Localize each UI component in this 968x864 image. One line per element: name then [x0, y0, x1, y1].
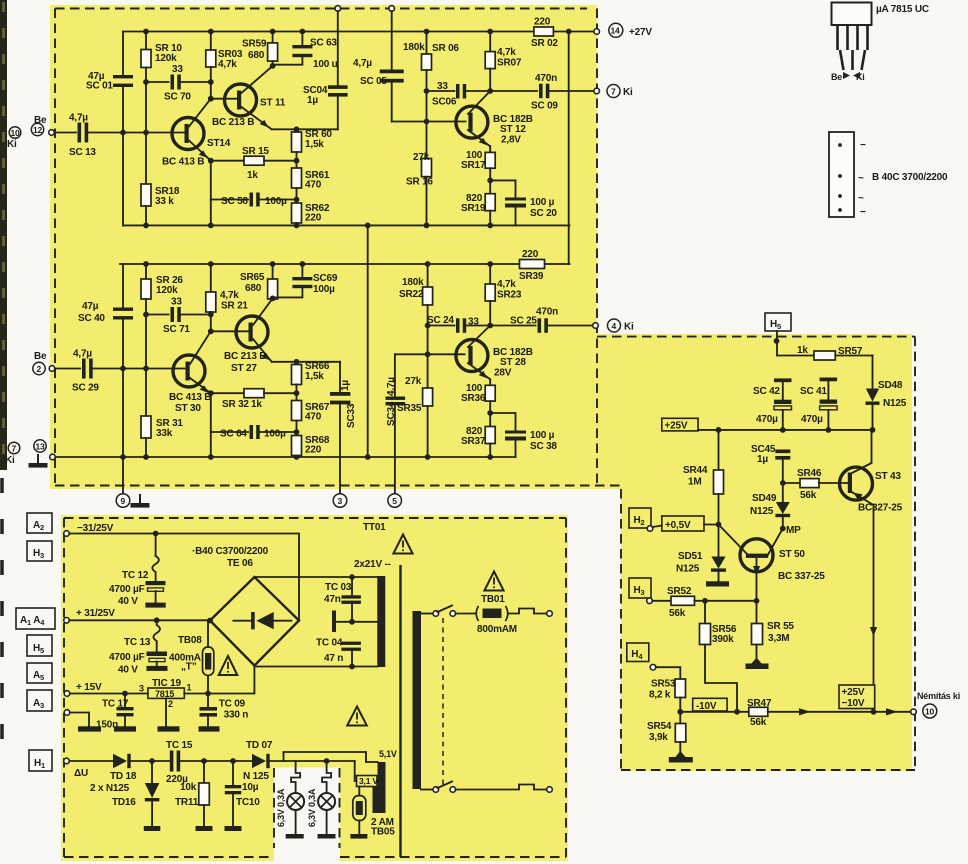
svg-text:SR52: SR52: [667, 586, 692, 597]
svg-text:SR07: SR07: [497, 58, 522, 69]
capacitor SC29: [82, 359, 86, 379]
resistor SR67: [292, 401, 302, 421]
svg-text:SR 21: SR 21: [221, 301, 248, 312]
svg-text:SR46: SR46: [797, 468, 822, 479]
dashed border lamp cutout: [274, 768, 340, 848]
terminal circle 5: [388, 494, 402, 508]
rectifier B40C block: [829, 132, 854, 217]
primary bottom switch: [421, 789, 433, 791]
svg-text:SC34: SC34: [386, 401, 397, 426]
svg-text:BC327-25: BC327-25: [858, 503, 903, 514]
fuse TB05: [358, 787, 360, 796]
svg-text:220: 220: [305, 213, 322, 224]
wire +25V line: [698, 429, 872, 431]
terminal H2: [647, 526, 653, 532]
svg-text:SR37: SR37: [461, 436, 486, 447]
svg-text:33k: 33k: [156, 428, 173, 439]
wire +27V top rail channel 1: [123, 31, 594, 33]
node SR59 bottom junction: [270, 63, 276, 69]
node bridge left vertex: [207, 618, 213, 624]
svg-text:47µ: 47µ: [82, 301, 99, 312]
diode TD16: [151, 761, 153, 783]
node base junction SR06 column: [424, 119, 430, 125]
ground symbol at 9: [131, 494, 150, 508]
switch link dashed: [442, 618, 444, 785]
resistor SR02: [534, 27, 554, 36]
terminal circle 7 ki left: [8, 442, 20, 454]
svg-text:SC 70: SC 70: [164, 92, 191, 103]
svg-text:TT01: TT01: [363, 522, 386, 533]
node MP: [780, 526, 786, 532]
node rail ch2 SR35: [425, 454, 431, 460]
svg-text:SR19: SR19: [461, 203, 486, 214]
wire H5 down: [776, 331, 778, 356]
svg-text:680: 680: [245, 283, 262, 294]
svg-text:TB05: TB05: [371, 827, 395, 838]
svg-text:TC 03: TC 03: [325, 582, 352, 593]
node SC06 left junction: [424, 88, 430, 94]
capacitor TC03: [351, 577, 353, 595]
capacitor TC09: [207, 694, 209, 708]
diode SD51: [718, 525, 720, 557]
terminal circle 3: [333, 494, 347, 508]
svg-text:SC06: SC06: [432, 97, 457, 108]
resistor SR65: [272, 264, 274, 279]
svg-text:−: −: [860, 140, 866, 151]
svg-text:ST14: ST14: [207, 138, 231, 149]
wire ground rail channel 2: [53, 456, 516, 458]
svg-text:Ki: Ki: [623, 87, 633, 98]
label box H5 left: [27, 635, 52, 656]
capacitor TC17: [124, 694, 126, 708]
svg-text:SR44: SR44: [683, 465, 708, 476]
svg-text:SC 41: SC 41: [800, 386, 827, 397]
svg-text:ST 30: ST 30: [175, 403, 201, 414]
svg-text:2,8V: 2,8V: [501, 135, 521, 146]
diode SD48: [872, 356, 874, 389]
svg-text:4,7µ: 4,7µ: [353, 58, 372, 69]
svg-text:+25V: +25V: [665, 421, 688, 432]
node SR52/emitter ST50: [754, 598, 760, 604]
svg-text:SC 71: SC 71: [163, 324, 190, 335]
svg-text:100 u: 100 u: [313, 59, 338, 70]
node TC12 top: [153, 531, 159, 537]
svg-text:7: 7: [12, 443, 17, 453]
node TC03 top: [349, 574, 355, 580]
svg-text:ST 43: ST 43: [875, 471, 901, 482]
svg-text:TC 13: TC 13: [124, 637, 151, 648]
terminal input ch2: [49, 366, 55, 372]
svg-text:4,7k: 4,7k: [220, 290, 239, 301]
svg-text:+ 31/25V: + 31/25V: [76, 608, 115, 619]
capacitor SC69: [301, 264, 303, 277]
svg-text:2: 2: [37, 364, 42, 374]
ground SR54: [675, 751, 686, 758]
fuse TB01: [476, 606, 508, 621]
yellow right region (muting circuit): [597, 334, 912, 771]
svg-text:SC 05: SC 05: [360, 76, 387, 87]
svg-text:„T”: „T”: [181, 662, 197, 673]
terminal input ch1: [49, 130, 55, 136]
capacitor TC12: [155, 534, 157, 557]
svg-text:220: 220: [522, 249, 539, 260]
svg-text:SR35: SR35: [397, 403, 422, 414]
svg-text:TR11: TR11: [175, 797, 199, 808]
svg-text:Be: Be: [831, 72, 842, 82]
svg-text:SD49: SD49: [752, 493, 777, 504]
svg-text:9: 9: [121, 496, 126, 506]
wire ST14 emitter down: [210, 161, 212, 226]
svg-text:4,7k: 4,7k: [218, 59, 237, 70]
svg-text:ST 11: ST 11: [260, 98, 286, 109]
svg-text:~: ~: [858, 193, 864, 204]
node SR65 bottom junction: [270, 296, 276, 302]
transistor ST11: [225, 84, 257, 116]
node SC70 right junction: [208, 79, 214, 85]
bridge rectifier TE06: [210, 577, 299, 666]
svg-text:100 µ: 100 µ: [530, 430, 555, 441]
transistor ST12: [456, 106, 488, 138]
resistor SR55: [756, 601, 758, 624]
svg-text:4700 µF: 4700 µF: [109, 652, 145, 663]
secondary winding 2x21V: [377, 576, 385, 667]
svg-text:1k: 1k: [797, 345, 808, 356]
svg-text:SR57: SR57: [838, 346, 863, 357]
terminal circle 4: [608, 319, 621, 332]
svg-text:+0,5V: +0,5V: [665, 520, 691, 531]
resistor SR32: [211, 392, 244, 394]
svg-text:+27V: +27V: [629, 27, 652, 38]
node SR52/SR56: [702, 598, 708, 604]
svg-text:SR22: SR22: [399, 289, 424, 300]
svg-text:4,7µ: 4,7µ: [73, 349, 92, 360]
transistor ST50: [740, 539, 773, 572]
wire ground rail channel 1: [123, 224, 570, 226]
svg-text:~: ~: [858, 173, 864, 184]
capacitor TC15: [170, 751, 174, 772]
svg-text:SC 42: SC 42: [753, 386, 780, 397]
node rail SR65: [270, 261, 276, 267]
svg-text:3,1 V: 3,1 V: [359, 776, 378, 786]
transistor ST30: [173, 355, 205, 387]
node SR36 bottom junction: [487, 410, 493, 416]
node rail SR22: [425, 261, 431, 267]
svg-text:33: 33: [437, 81, 448, 92]
svg-text:1k: 1k: [251, 399, 262, 410]
resistor SR44: [718, 430, 720, 470]
svg-text:SR 15: SR 15: [242, 146, 269, 157]
svg-text:3,9k: 3,9k: [649, 732, 668, 743]
svg-text:BC 413 B: BC 413 B: [169, 392, 211, 403]
resistor SR31: [141, 416, 151, 438]
resistor SR52: [652, 600, 671, 602]
node rail junction SC63 column: [300, 29, 306, 35]
svg-text:SC 40: SC 40: [78, 313, 105, 324]
node TC13 top: [154, 617, 160, 623]
node rail junction +27V feed: [566, 29, 572, 35]
svg-text:5,1V: 5,1V: [379, 749, 397, 759]
label box A3: [27, 690, 52, 711]
wire secondary top: [254, 576, 377, 578]
center tap bar: [332, 611, 336, 633]
svg-text:390k: 390k: [712, 634, 734, 645]
net label box +25V: [662, 418, 698, 431]
svg-text:−: −: [860, 207, 866, 218]
resistor SR22: [427, 264, 429, 287]
svg-text:13: 13: [36, 441, 46, 451]
node SC45/SR46/SD49: [780, 480, 786, 486]
terminal circle 10: [9, 127, 21, 139]
resistor SR37: [485, 427, 495, 444]
svg-text:56k: 56k: [800, 490, 817, 501]
svg-text:SC 58: SC 58: [221, 196, 248, 207]
terminal ground rail ch2: [50, 454, 56, 460]
resistor SR68: [292, 436, 302, 456]
svg-text:TB08: TB08: [178, 635, 202, 646]
svg-text:SR 32: SR 32: [222, 399, 249, 410]
svg-text:10k: 10k: [180, 782, 197, 793]
svg-text:56k: 56k: [750, 717, 767, 728]
net label box -10V: [693, 698, 727, 711]
svg-text:4,7µ: 4,7µ: [69, 113, 88, 124]
svg-text:7: 7: [611, 86, 616, 96]
svg-text:27k: 27k: [413, 152, 430, 163]
node rail SR26: [143, 261, 149, 267]
svg-text:14: 14: [611, 26, 621, 36]
terminal circle 14: [609, 23, 623, 37]
lamp 1: [291, 761, 300, 793]
wire lamp top jog: [284, 752, 378, 762]
resistor SR36: [489, 379, 491, 385]
svg-text:TB01: TB01: [481, 594, 505, 605]
svg-text:Ki: Ki: [856, 72, 865, 82]
wire -31/25V to bridge: [69, 534, 299, 621]
terminal on top border SC04: [335, 6, 341, 12]
dashed border PSU region: [64, 518, 566, 857]
svg-text:10: 10: [925, 706, 935, 716]
svg-text:40 V: 40 V: [118, 596, 138, 607]
node rail SR62: [294, 223, 300, 229]
wire input ch2: [55, 368, 80, 370]
svg-text:1µ: 1µ: [340, 380, 351, 391]
node TR11: [201, 758, 207, 764]
warning triangle mid: [347, 707, 367, 726]
terminal +27V: [594, 29, 600, 35]
svg-text:SC33: SC33: [346, 403, 357, 428]
svg-text:Ki: Ki: [624, 322, 634, 333]
resistor SR21: [210, 264, 212, 292]
svg-text:N 125: N 125: [243, 771, 269, 782]
wire +27V top rail channel 2: [120, 263, 570, 265]
svg-text:TC 12: TC 12: [122, 570, 149, 581]
node SC70 left junction: [143, 79, 149, 85]
svg-text:SC 20: SC 20: [530, 208, 557, 219]
capacitor SC63: [301, 32, 303, 46]
node SR44 bottom junction: [716, 522, 722, 528]
svg-text:220: 220: [534, 17, 551, 28]
transistor ST28: [456, 340, 488, 372]
svg-text:BC 213 B: BC 213 B: [224, 351, 266, 362]
wire input ch1: [54, 132, 76, 134]
svg-text:TD 18: TD 18: [110, 771, 137, 782]
node rail junction SC40: [120, 454, 126, 460]
node TB08 bottom: [205, 691, 211, 697]
IC uA7815 package: [832, 3, 872, 26]
svg-text:4700 µF: 4700 µF: [109, 584, 145, 595]
node SR60 top junction: [294, 126, 300, 132]
svg-text:120k: 120k: [155, 53, 177, 64]
wire +0,5V to base: [704, 524, 719, 526]
node SR61/SR62 junction: [294, 197, 300, 203]
node rail SR21: [208, 261, 214, 267]
svg-text:1,5k: 1,5k: [305, 371, 324, 382]
svg-text:220: 220: [305, 445, 322, 456]
capacitor SC20: [490, 180, 515, 197]
svg-text:470µ: 470µ: [801, 414, 823, 425]
transistor ST43: [840, 467, 873, 500]
svg-text:1: 1: [187, 683, 192, 693]
resistor SR60: [296, 129, 298, 132]
svg-text:TD16: TD16: [112, 797, 136, 808]
wire ST11 emitter line: [272, 128, 338, 130]
lamp 2: [322, 761, 331, 793]
capacitor SC06: [427, 90, 455, 92]
node rail ch2 SC40 handled, SR31: [143, 454, 149, 460]
svg-text:SC 25: SC 25: [510, 316, 537, 327]
svg-text:SR 02: SR 02: [531, 38, 558, 49]
capacitor SC24: [428, 325, 455, 327]
svg-text:TE 06: TE 06: [227, 558, 253, 569]
wire secondary bottom: [254, 666, 377, 668]
diode SD49: [782, 483, 784, 502]
label box H2: [629, 508, 651, 528]
node input junction SC01: [120, 130, 126, 136]
dashed border region A: [55, 9, 621, 486]
capacitor TC04: [341, 642, 361, 645]
diode TD18: [113, 754, 127, 768]
resistor SR18: [141, 184, 151, 206]
node +25V SD48/ST43: [870, 427, 876, 433]
svg-text:470: 470: [305, 180, 322, 191]
svg-text:5: 5: [392, 496, 397, 506]
node SC24/SC25 junction SR23 column: [487, 323, 493, 329]
svg-text:4,7k: 4,7k: [497, 47, 516, 58]
capacitor SC58: [211, 199, 248, 201]
capacitor SC42: [774, 378, 792, 382]
svg-text:100µ: 100µ: [264, 429, 286, 440]
label box H5: [765, 313, 791, 331]
primary winding bar: [413, 611, 422, 789]
capacitor TC10: [232, 761, 234, 785]
resistor SR17: [489, 146, 491, 152]
svg-text:27k: 27k: [405, 376, 422, 387]
svg-text:SC69: SC69: [313, 273, 338, 284]
terminal circle 7 Ki: [607, 85, 620, 98]
svg-text:SD51: SD51: [678, 551, 703, 562]
node SR17 bottom junction: [487, 178, 493, 184]
wire base ST11: [211, 98, 237, 100]
svg-text:470n: 470n: [536, 307, 558, 318]
terminal circle 10 output: [923, 704, 937, 718]
svg-text:1µ: 1µ: [757, 454, 768, 465]
terminal dU: [64, 758, 70, 764]
node base junction SR22 column: [425, 351, 431, 357]
svg-text:TC 09: TC 09: [219, 699, 246, 710]
label box A5: [27, 663, 52, 683]
wire ST27 emitter line: [272, 361, 340, 363]
node ST30 collector junction: [208, 328, 214, 334]
terminal circle 12: [31, 123, 43, 135]
fuse TB08: [207, 621, 209, 647]
ground symbol ch2 rail: [29, 454, 48, 468]
capacitor SC01: [122, 32, 124, 76]
svg-text:SC 29: SC 29: [72, 383, 99, 394]
svg-text:TC 17: TC 17: [102, 699, 129, 710]
terminal H4: [650, 664, 656, 670]
node TC04 bottom: [349, 664, 355, 670]
net box 3,1V: [355, 761, 357, 781]
node bias junction input ch2: [143, 366, 149, 372]
node center tap: [349, 619, 355, 625]
label box H3 left: [27, 541, 52, 561]
yellow PSU region: [61, 515, 568, 861]
resistor SR10: [145, 32, 147, 50]
node ST14 emitter junction: [208, 158, 214, 164]
svg-text:1µ: 1µ: [307, 95, 318, 106]
white cutout around lamps: [274, 768, 340, 864]
svg-text:33 k: 33 k: [155, 196, 174, 207]
capacitor SC04: [337, 11, 339, 85]
svg-text:Némítás ki: Némítás ki: [917, 691, 960, 701]
wire +31/25V: [69, 619, 210, 621]
terminal A3: [64, 710, 70, 716]
svg-text:33: 33: [171, 297, 182, 308]
diode TD07: [252, 754, 266, 768]
svg-text:330 n: 330 n: [224, 710, 249, 721]
svg-text:47 n: 47 n: [324, 653, 343, 664]
svg-text:40 V: 40 V: [118, 665, 138, 676]
node rail SR23: [487, 261, 493, 267]
svg-text:1M: 1M: [688, 477, 702, 488]
svg-text:10µ: 10µ: [242, 782, 259, 793]
svg-text:470µ: 470µ: [756, 414, 778, 425]
resistor TR11: [203, 761, 205, 783]
resistor SR53: [656, 667, 681, 679]
svg-text:Ki: Ki: [7, 139, 17, 150]
net label box +0,5V: [653, 526, 662, 528]
resistor SR57 1k: [777, 355, 814, 357]
resistor SR15: [211, 160, 244, 162]
svg-text:BC 337-25: BC 337-25: [778, 571, 825, 582]
wire input to base ST14: [88, 132, 184, 134]
terminal circle 2: [33, 362, 45, 374]
resistor SR66: [296, 362, 298, 365]
svg-text:ST 12: ST 12: [500, 124, 526, 135]
transistor ST14: [172, 118, 204, 150]
capacitor SC34: [394, 354, 396, 396]
node rail junction SR10 column: [143, 29, 149, 35]
resistor SR16 27k: [422, 159, 432, 177]
ground SR55: [751, 658, 762, 665]
node TC10: [230, 758, 236, 764]
capacitor SC09: [490, 90, 537, 92]
svg-text:2: 2: [168, 699, 173, 709]
node rail SC69: [300, 261, 306, 267]
wire base ST27: [211, 330, 249, 332]
wire input to base ST30: [93, 368, 185, 370]
svg-text:6,3V 0,3A: 6,3V 0,3A: [307, 788, 317, 827]
svg-text:3: 3: [139, 684, 144, 694]
